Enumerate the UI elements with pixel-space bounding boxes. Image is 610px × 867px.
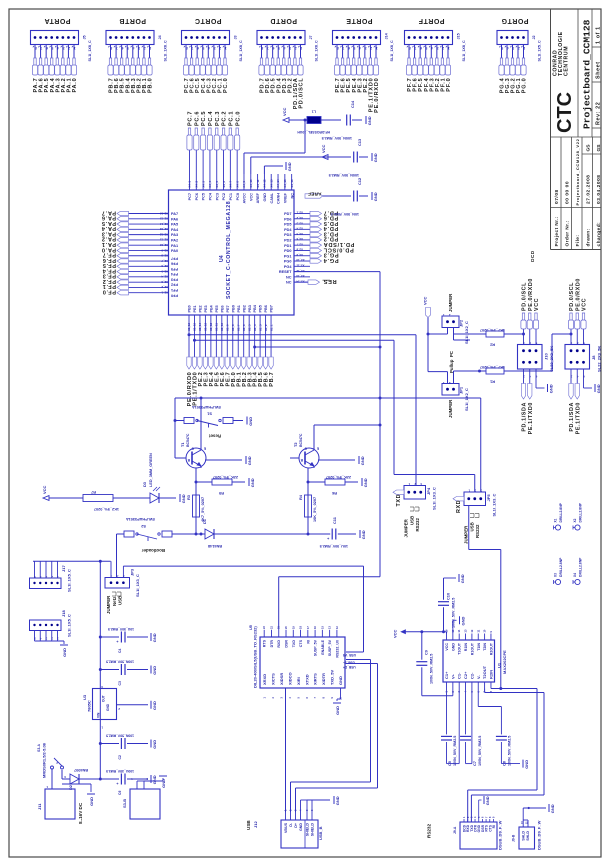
svg-text:X2_6: X2_6 — [161, 264, 168, 268]
svg-text:RESET: RESET — [279, 270, 292, 274]
svg-text:X4_4: X4_4 — [208, 181, 212, 188]
svg-text:PG.0: PG.0 — [522, 78, 528, 94]
svg-text:SL1I_1X3_C: SL1I_1X3_C — [492, 493, 497, 516]
svg-text:XIRTS: XIRTS — [313, 673, 318, 685]
svg-text:GND: GND — [373, 153, 378, 162]
svg-text:PB5: PB5 — [259, 305, 263, 312]
svg-text:J8: J8 — [591, 355, 596, 360]
svg-text:USB: USB — [410, 516, 415, 525]
svg-text:C8: C8 — [502, 760, 507, 766]
svg-text:SW-PHAP3301A: SW-PHAP3301A — [192, 405, 221, 409]
svg-text:PB6: PB6 — [264, 305, 268, 312]
svg-text:X3_5: X3_5 — [296, 232, 303, 236]
svg-text:CTS: CTS — [299, 639, 303, 647]
svg-text:RS232_U0: RS232_U0 — [335, 640, 339, 658]
svg-text:NC: NC — [286, 281, 292, 285]
svg-text:R7: R7 — [91, 490, 96, 495]
svg-text:Sheet: Sheet — [596, 61, 602, 79]
svg-text:PD.0/SCL: PD.0/SCL — [569, 282, 575, 311]
svg-text:changed:: changed: — [596, 222, 602, 247]
svg-text:PC.0: PC.0 — [223, 78, 229, 93]
svg-text:SL1I_1X8_C: SL1I_1X8_C — [315, 40, 319, 61]
svg-text:JUMPER: JUMPER — [404, 518, 409, 537]
svg-text:100N_50V_RM2.5: 100N_50V_RM2.5 — [329, 173, 359, 177]
svg-text:PC6: PC6 — [195, 193, 199, 200]
svg-text:USB: USB — [118, 596, 123, 605]
svg-text:SHLD: SHLD — [526, 831, 530, 841]
svg-text:X3_4: X3_4 — [296, 227, 303, 231]
svg-text:C5: C5 — [447, 760, 452, 766]
svg-text:JP3: JP3 — [130, 568, 135, 576]
svg-text:XIDTR: XIDTR — [321, 673, 326, 685]
svg-text:GND: GND — [596, 384, 601, 393]
svg-text:PF5: PF5 — [171, 267, 178, 271]
svg-text:100N_50V_RM2.5: 100N_50V_RM2.5 — [106, 660, 134, 664]
svg-text:PA.3: PA.3 — [101, 230, 116, 236]
svg-text:PD2: PD2 — [284, 239, 291, 243]
svg-text:PF.1: PF.1 — [102, 283, 116, 289]
svg-text:X1_2: X1_2 — [264, 324, 268, 331]
svg-text:PE.1/TXD0: PE.1/TXD0 — [575, 402, 581, 434]
svg-text:PE0: PE0 — [188, 305, 192, 312]
svg-text:XIDSR: XIDSR — [279, 673, 284, 685]
svg-text:PA.6: PA.6 — [101, 215, 116, 221]
svg-text:X4_12: X4_12 — [263, 179, 267, 188]
svg-text:PD.1/SDA: PD.1/SDA — [569, 402, 575, 432]
svg-text:7805C: 7805C — [87, 700, 92, 712]
svg-text:PE.1/TXD0: PE.1/TXD0 — [528, 402, 534, 434]
svg-text:USB_B: USB_B — [318, 826, 323, 840]
svg-text:SL1I_1X8_C: SL1I_1X8_C — [239, 40, 243, 61]
svg-text:PE7: PE7 — [226, 305, 230, 312]
svg-text:BN4148: BN4148 — [208, 544, 222, 548]
svg-text:03.04.2008: 03.04.2008 — [596, 174, 602, 204]
svg-text:X4_9: X4_9 — [242, 181, 246, 188]
svg-text:GND: GND — [263, 193, 267, 202]
svg-text:PE5: PE5 — [215, 305, 219, 312]
svg-text:C4: C4 — [118, 649, 122, 653]
svg-text:PA.0: PA.0 — [101, 246, 116, 252]
svg-text:X1_14: X1_14 — [198, 322, 202, 331]
svg-text:GND: GND — [152, 775, 157, 784]
svg-text:D3: D3 — [142, 481, 147, 487]
svg-text:VCC: VCC — [249, 193, 253, 201]
svg-text:E: E — [317, 447, 319, 451]
svg-text:C2-: C2- — [469, 672, 474, 679]
svg-text:GND: GND — [152, 666, 157, 675]
svg-text:E: E — [204, 447, 206, 451]
svg-text:GND: GND — [460, 617, 465, 626]
svg-text:PE1: PE1 — [193, 305, 197, 312]
svg-text:Bootloader: Bootloader — [142, 548, 165, 553]
svg-text:PF.2: PF.2 — [102, 278, 116, 284]
svg-text:X3_8: X3_8 — [296, 248, 303, 252]
svg-text:PD.2: PD.2 — [323, 236, 338, 242]
svg-text:GND: GND — [287, 162, 292, 171]
svg-text:R1: R1 — [489, 380, 495, 385]
svg-text:PA.5: PA.5 — [101, 220, 116, 226]
svg-text:JP1: JP1 — [459, 386, 464, 394]
svg-text:X3_13: X3_13 — [296, 274, 305, 278]
svg-text:X4_3: X4_3 — [201, 181, 205, 188]
svg-text:JUMPER: JUMPER — [448, 293, 453, 312]
svg-text:PC.4: PC.4 — [208, 111, 214, 126]
svg-text:MRDS0R1.5/2-5.08: MRDS0R1.5/2-5.08 — [42, 742, 47, 778]
svg-text:PF.6: PF.6 — [102, 257, 116, 263]
svg-text:J5: J5 — [83, 35, 87, 39]
svg-text:J14: J14 — [385, 32, 389, 39]
svg-text:PD5: PD5 — [284, 223, 291, 227]
svg-text:PA4: PA4 — [171, 228, 179, 232]
svg-text:Rev: 22: Rev: 22 — [596, 102, 602, 125]
svg-text:X2_13: X2_13 — [159, 227, 168, 231]
svg-text:PD.3: PD.3 — [323, 230, 338, 236]
svg-text:X4_16: X4_16 — [290, 179, 294, 188]
svg-text:8..16V DC: 8..16V DC — [78, 802, 83, 824]
svg-text:X4_5: X4_5 — [215, 181, 219, 188]
svg-text:GND: GND — [161, 779, 166, 788]
svg-text:PC.7: PC.7 — [188, 111, 194, 126]
svg-text:SL1I_1X8_C: SL1I_1X8_C — [390, 40, 394, 61]
svg-text:PA2: PA2 — [171, 239, 178, 243]
svg-text:PA.0: PA.0 — [72, 78, 78, 93]
svg-text:00 00 00: 00 00 00 — [565, 181, 571, 204]
svg-text:PORTF: PORTF — [418, 17, 444, 24]
svg-text:L1: L1 — [312, 110, 316, 114]
svg-text:SL1I_1X2_C: SL1I_1X2_C — [464, 388, 469, 411]
svg-text:NC: NC — [290, 193, 294, 199]
svg-text:X3_6: X3_6 — [296, 237, 303, 241]
svg-text:NC: NC — [286, 275, 292, 279]
svg-text:CENTRUM: CENTRUM — [564, 46, 570, 76]
svg-text:VCC: VCC — [282, 107, 287, 116]
svg-text:DSR: DSR — [285, 640, 289, 648]
svg-text:PC.6: PC.6 — [194, 111, 200, 126]
svg-text:X2_11: X2_11 — [160, 238, 168, 242]
svg-text:ENABLE: ENABLE — [321, 639, 325, 654]
svg-text:X1_16: X1_16 — [187, 322, 191, 331]
svg-text:BN4007: BN4007 — [74, 768, 88, 772]
svg-text:drawn:: drawn: — [586, 228, 592, 246]
svg-text:J11: J11 — [37, 803, 42, 810]
svg-text:X3_7: X3_7 — [296, 242, 303, 246]
svg-text:PA1: PA1 — [171, 244, 178, 248]
svg-text:PD4: PD4 — [284, 228, 292, 232]
svg-text:D+: D+ — [294, 823, 298, 828]
svg-text:X2_3: X2_3 — [161, 280, 168, 284]
svg-text:J3: J3 — [234, 35, 238, 39]
svg-text:PORTD: PORTD — [270, 17, 297, 24]
svg-text:R2: R2 — [489, 343, 495, 348]
svg-text:X2_5: X2_5 — [161, 269, 168, 273]
svg-text:RI: RI — [306, 640, 310, 644]
svg-text:PD1: PD1 — [284, 244, 291, 248]
svg-text:GND: GND — [152, 701, 157, 710]
svg-text:XRXD: XRXD — [262, 674, 267, 685]
svg-text:USB: USB — [470, 522, 475, 531]
svg-text:GND: GND — [152, 633, 157, 642]
svg-text:X4_7: X4_7 — [229, 181, 233, 188]
svg-text:Project Nr.:: Project Nr.: — [554, 216, 560, 246]
svg-text:J18: J18 — [61, 610, 66, 617]
svg-text:J9-B: J9-B — [512, 834, 516, 842]
svg-text:T1IN: T1IN — [477, 643, 481, 651]
svg-text:S1: S1 — [206, 412, 212, 417]
svg-text:R1OUT: R1OUT — [470, 642, 474, 655]
svg-text:GS: GS — [596, 144, 602, 152]
svg-text:GND: GND — [335, 796, 340, 805]
svg-text:X3_12: X3_12 — [296, 269, 305, 273]
svg-text:SL1I_1X3_C: SL1I_1X3_C — [432, 487, 437, 510]
svg-text:R5: R5 — [218, 491, 224, 496]
svg-text:PA0: PA0 — [171, 249, 178, 253]
svg-text:Projectboard_CCM128_V22: Projectboard_CCM128_V22 — [575, 138, 580, 205]
svg-text:PG.3: PG.3 — [323, 252, 339, 258]
svg-text:X1_11: X1_11 — [215, 323, 219, 331]
svg-text:100N_50V_RM2.5: 100N_50V_RM2.5 — [478, 736, 482, 766]
svg-text:R4: R4 — [298, 494, 303, 500]
svg-text:PC.1: PC.1 — [228, 111, 234, 126]
svg-text:PD3: PD3 — [284, 233, 291, 237]
svg-text:PORTG: PORTG — [501, 17, 528, 24]
svg-text:J7: J7 — [309, 35, 313, 39]
svg-text:V-: V- — [476, 675, 481, 679]
svg-text:SHLD: SHLD — [521, 831, 525, 841]
svg-text:J12: J12 — [253, 821, 258, 828]
svg-text:PE2: PE2 — [199, 305, 203, 312]
svg-text:SL1I_1X3_C: SL1I_1X3_C — [135, 574, 140, 597]
svg-text:S3-A: S3-A — [37, 744, 41, 752]
svg-text:C11: C11 — [332, 516, 337, 524]
svg-text:JUMPER: JUMPER — [448, 399, 453, 418]
svg-text:VIN: VIN — [97, 712, 101, 718]
svg-text:R6: R6 — [331, 491, 337, 496]
svg-text:PE4: PE4 — [209, 304, 213, 312]
svg-text:SL1I_1X5_C: SL1I_1X5_C — [67, 569, 72, 592]
svg-text:PG4: PG4 — [284, 265, 292, 269]
svg-text:GND: GND — [338, 676, 343, 685]
svg-text:X3_9: X3_9 — [296, 253, 303, 257]
svg-text:VCC: VCC — [582, 298, 588, 311]
svg-text:V+: V+ — [450, 673, 455, 679]
svg-text:PORTA: PORTA — [44, 17, 70, 24]
svg-text:10N_50V_RM2.5: 10N_50V_RM2.5 — [331, 212, 359, 216]
svg-text:C2+: C2+ — [463, 671, 468, 679]
svg-text:X1_10: X1_10 — [220, 322, 224, 331]
svg-text:X4_2: X4_2 — [195, 181, 199, 188]
svg-text:PE.0/RXD0: PE.0/RXD0 — [374, 78, 380, 113]
svg-text:PD6: PD6 — [284, 217, 291, 221]
svg-text:X4_10: X4_10 — [249, 179, 253, 188]
svg-text:PA6: PA6 — [171, 217, 178, 221]
svg-text:DRILL2.8NP: DRILL2.8NP — [559, 502, 563, 522]
svg-text:VBUS: VBUS — [284, 822, 288, 833]
svg-text:PF1: PF1 — [171, 288, 178, 292]
svg-text:SW-PHAP3301A: SW-PHAP3301A — [126, 517, 155, 521]
svg-text:C2: C2 — [118, 755, 122, 759]
svg-text:GND: GND — [460, 574, 465, 583]
svg-text:X4: X4 — [573, 573, 577, 577]
svg-text:GND: GND — [360, 456, 365, 465]
svg-text:PE.0/RXD0: PE.0/RXD0 — [575, 278, 581, 311]
svg-text:Pullup PC: Pullup PC — [449, 350, 454, 373]
svg-text:R2IN: R2IN — [488, 670, 493, 679]
svg-text:T2IN: T2IN — [483, 643, 487, 651]
svg-text:SHIELD: SHIELD — [306, 823, 310, 837]
svg-text:PB1: PB1 — [237, 305, 241, 312]
svg-text:BC547C: BC547C — [299, 433, 303, 447]
svg-text:PF.7: PF.7 — [102, 252, 116, 258]
svg-text:PB.0: PB.0 — [148, 78, 154, 93]
svg-text:T1OUT: T1OUT — [458, 642, 462, 655]
svg-text:X3: X3 — [554, 573, 558, 577]
svg-text:RI: RI — [492, 825, 496, 828]
svg-text:PF.4: PF.4 — [102, 267, 116, 273]
svg-text:PD.5: PD.5 — [323, 220, 338, 226]
svg-text:VCC: VCC — [423, 296, 428, 305]
svg-text:PD.0/SCL: PD.0/SCL — [299, 78, 305, 109]
svg-text:10U_50V_RM2.5: 10U_50V_RM2.5 — [108, 627, 134, 631]
svg-text:X3_3: X3_3 — [296, 221, 303, 225]
svg-text:PC.0: PC.0 — [235, 111, 241, 126]
svg-text:PF6: PF6 — [171, 262, 178, 266]
svg-text:JUMPER: JUMPER — [106, 595, 111, 614]
svg-text:10U_50V_RM2.5: 10U_50V_RM2.5 — [320, 544, 348, 548]
svg-text:X3_2: X3_2 — [296, 216, 303, 220]
svg-text:X1_3: X1_3 — [258, 324, 262, 331]
svg-text:100U_35V_RM3.5: 100U_35V_RM3.5 — [106, 769, 134, 773]
svg-text:PORTC: PORTC — [195, 17, 222, 24]
svg-text:C13: C13 — [357, 138, 362, 146]
svg-text:X2_15: X2_15 — [159, 217, 168, 221]
svg-text:X2_1: X2_1 — [161, 291, 168, 295]
svg-text:GND: GND — [524, 760, 529, 769]
svg-text:RS232: RS232 — [415, 518, 420, 532]
svg-text:4K7_5%_0207: 4K7_5%_0207 — [480, 365, 505, 369]
svg-text:R3: R3 — [186, 494, 191, 500]
svg-text:X3_1: X3_1 — [296, 211, 303, 215]
svg-text:PF0: PF0 — [171, 293, 178, 297]
svg-text:J9-A: J9-A — [453, 826, 457, 834]
svg-text:USB_D+: USB_D+ — [343, 665, 356, 669]
svg-text:C1-: C1- — [457, 672, 462, 679]
svg-text:SL1I_1X5_C: SL1I_1X5_C — [538, 40, 542, 61]
svg-text:PB.7: PB.7 — [269, 372, 275, 387]
svg-text:RS232: RS232 — [427, 824, 432, 838]
svg-text:DSUB_D9_F_W: DSUB_D9_F_W — [498, 820, 503, 850]
svg-text:S2: S2 — [140, 524, 146, 529]
svg-text:PC2: PC2 — [222, 193, 226, 200]
svg-text:PC.3: PC.3 — [215, 111, 221, 126]
svg-text:XTXD: XTXD — [304, 674, 309, 685]
svg-text:PC0: PC0 — [236, 193, 240, 200]
svg-text:X2_4: X2_4 — [161, 275, 168, 279]
svg-text:X1: X1 — [554, 518, 558, 522]
svg-text:X4_13: X4_13 — [269, 179, 273, 188]
svg-text:GND: GND — [548, 384, 553, 393]
svg-text:R2OUT: R2OUT — [489, 642, 493, 655]
svg-text:GND: GND — [373, 192, 378, 201]
svg-text:X1_5: X1_5 — [247, 324, 251, 331]
svg-text:X2_10: X2_10 — [159, 243, 168, 247]
svg-text:PA.7: PA.7 — [101, 209, 116, 215]
svg-text:PA5: PA5 — [171, 223, 178, 227]
svg-text:CANL: CANL — [270, 192, 274, 203]
svg-text:GND: GND — [361, 530, 366, 539]
svg-text:X3_10: X3_10 — [296, 258, 305, 262]
svg-text:TXD: TXD — [396, 494, 402, 507]
svg-text:X2_14: X2_14 — [159, 222, 168, 226]
svg-text:GND: GND — [248, 417, 253, 426]
svg-text:PF.0: PF.0 — [446, 78, 452, 92]
svg-text:GND: GND — [62, 648, 67, 657]
svg-text:PD.1/SDA: PD.1/SDA — [323, 241, 354, 247]
svg-text:GND: GND — [106, 703, 110, 711]
svg-text:X2: X2 — [573, 518, 577, 522]
svg-text:HF-DROSSEL_10UH: HF-DROSSEL_10UH — [297, 130, 330, 134]
svg-text:PF7: PF7 — [171, 256, 178, 260]
svg-text:LED_3MM_GREEN: LED_3MM_GREEN — [149, 453, 153, 487]
svg-text:X2_12: X2_12 — [159, 232, 168, 236]
svg-text:CANH: CANH — [277, 193, 281, 204]
svg-text:PE3: PE3 — [204, 305, 208, 312]
svg-text:22K_5%_0207: 22K_5%_0207 — [213, 475, 238, 479]
svg-text:XIDCO: XIDCO — [287, 672, 292, 685]
svg-text:DRILL2.8NP: DRILL2.8NP — [579, 557, 583, 577]
svg-text:X2_7: X2_7 — [161, 259, 168, 263]
svg-text:C3: C3 — [118, 681, 122, 685]
svg-text:X2_2: X2_2 — [161, 285, 168, 289]
svg-text:X3_14: X3_14 — [296, 279, 305, 283]
svg-text:DIL20-400/SIL5(USB_TO_RS232): DIL20-400/SIL5(USB_TO_RS232) — [253, 626, 258, 688]
svg-text:U1: U1 — [497, 662, 502, 668]
svg-text:TXD: TXD — [292, 640, 296, 648]
svg-text:100N_50V_RM2.5: 100N_50V_RM2.5 — [106, 734, 134, 738]
svg-text:JUMPER: JUMPER — [464, 525, 469, 544]
svg-text:R1IN: R1IN — [464, 643, 468, 652]
svg-text:SL1I_1X8_C: SL1I_1X8_C — [462, 40, 466, 61]
svg-text:PA.2: PA.2 — [101, 236, 116, 242]
svg-text:PB0: PB0 — [231, 305, 235, 312]
svg-text:S3-B: S3-B — [122, 799, 127, 808]
svg-text:PF4: PF4 — [170, 272, 178, 276]
svg-text:XIRI: XIRI — [296, 677, 301, 685]
svg-text:GND: GND — [451, 643, 455, 651]
svg-text:4K7_5%_0207: 4K7_5%_0207 — [480, 328, 505, 332]
svg-text:U3: U3 — [82, 694, 87, 700]
svg-text:DTR: DTR — [270, 640, 274, 648]
svg-text:OUT: OUT — [102, 695, 106, 702]
svg-text:AREF: AREF — [256, 192, 260, 203]
svg-text:PC.5: PC.5 — [201, 111, 207, 126]
svg-text:X1_8: X1_8 — [231, 324, 235, 331]
svg-text:PORTB: PORTB — [119, 17, 146, 24]
svg-text:C6: C6 — [118, 791, 122, 795]
svg-text:X1_13: X1_13 — [204, 322, 208, 331]
svg-text:SL22_2X3_5K: SL22_2X3_5K — [549, 346, 554, 372]
svg-text:PE.0/RXD0: PE.0/RXD0 — [528, 278, 534, 311]
svg-text:X4_11: X4_11 — [256, 179, 260, 187]
svg-text:GND: GND — [335, 706, 340, 715]
svg-text:DRILL2.8NP: DRILL2.8NP — [559, 557, 563, 577]
svg-text:100N_50V_RM2.5: 100N_50V_RM2.5 — [430, 654, 434, 684]
svg-text:File:: File: — [575, 235, 581, 247]
svg-text:PC5: PC5 — [202, 193, 206, 200]
svg-text:Netz: Netz — [112, 596, 117, 606]
svg-text:U4: U4 — [219, 255, 225, 262]
svg-text:GND: GND — [485, 796, 490, 805]
svg-text:MAX202CPE: MAX202CPE — [502, 650, 507, 674]
